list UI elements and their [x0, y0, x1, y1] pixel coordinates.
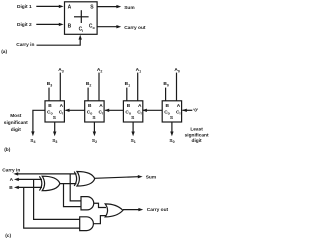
adder plus symbol	[74, 10, 89, 23]
svg-text:S: S	[131, 115, 135, 121]
svg-text:A3: A3	[58, 67, 63, 73]
svg-text:A1: A1	[136, 67, 141, 73]
wire B0 input	[165, 88, 167, 101]
full adder block FA1	[123, 101, 142, 122]
wire A tap to G2	[34, 179, 80, 219]
wire G1 output to OR	[94, 203, 106, 207]
svg-text:(a): (a)	[1, 49, 7, 55]
wire B3 input	[48, 88, 50, 101]
svg-text:Carry out: Carry out	[124, 25, 146, 31]
svg-text:A: A	[99, 103, 103, 109]
wire FA3 carry-out to S4	[31, 110, 45, 136]
xor gate X2 (sum)	[74, 172, 95, 187]
svg-text:Co: Co	[87, 110, 93, 116]
svg-text:A0: A0	[174, 67, 179, 73]
svg-text:A: A	[177, 103, 181, 109]
svg-text:digit: digit	[192, 138, 203, 144]
svg-text:Ci: Ci	[99, 110, 103, 116]
wire A1 input	[137, 73, 139, 101]
svg-text:Sum: Sum	[146, 175, 156, 181]
FA3 pin labels B A Co Ci S	[47, 103, 64, 121]
svg-text:B: B	[166, 103, 170, 109]
wire B1 input	[126, 88, 128, 101]
svg-text:B0: B0	[163, 81, 168, 87]
wire X1 output tap to G1	[64, 184, 82, 207]
svg-text:Co: Co	[125, 110, 131, 116]
svg-text:Least: Least	[190, 126, 203, 132]
svg-text:Ci: Ci	[79, 27, 84, 33]
FA0 pin labels B A Co Ci S	[164, 103, 181, 121]
svg-text:Co: Co	[89, 24, 96, 30]
svg-text:S: S	[170, 115, 174, 121]
wire carry FA2 to FA3	[65, 109, 85, 112]
wire carry-in tap to G1	[70, 174, 81, 201]
wire G2 output to OR	[93, 216, 106, 224]
wire S to Sum	[97, 5, 121, 8]
wire carry-in input (c)	[13, 172, 76, 175]
svg-text:A: A	[68, 5, 72, 11]
svg-text:Carry out: Carry out	[147, 207, 169, 213]
svg-text:A: A	[138, 103, 142, 109]
wire FA3 sum out S3	[53, 122, 56, 136]
svg-text:A: A	[10, 177, 14, 183]
svg-text:A: A	[60, 103, 64, 109]
wire Sum output (c)	[95, 175, 143, 178]
wire Digit 1 to A	[36, 5, 63, 8]
svg-text:Ci: Ci	[176, 110, 180, 116]
svg-text:significant: significant	[185, 132, 209, 138]
wire FA2 sum out S2	[93, 122, 96, 136]
full adder block U1 (a)	[65, 2, 98, 35]
svg-text:Ci: Ci	[59, 110, 63, 116]
svg-text:Digit 2: Digit 2	[17, 22, 32, 28]
svg-text:S: S	[90, 5, 94, 11]
svg-text:Digit 1: Digit 1	[17, 4, 32, 10]
svg-text:Co: Co	[164, 110, 170, 116]
and gate G2 (A and B)	[80, 217, 94, 231]
wire Carry out output (c)	[123, 208, 143, 211]
svg-text:Carry in: Carry in	[16, 42, 34, 48]
svg-text:‘0’: ‘0’	[193, 107, 198, 113]
wire carry-in 0 to FA0	[182, 109, 192, 112]
wire FA1 sum out S1	[131, 122, 134, 136]
svg-text:S1: S1	[131, 138, 136, 144]
wire carry FA1 to FA2	[104, 109, 123, 112]
svg-text:S4: S4	[30, 138, 35, 144]
svg-text:B1: B1	[125, 81, 130, 87]
wire B input (c)	[14, 186, 42, 189]
svg-text:A2: A2	[97, 67, 102, 73]
svg-text:S: S	[92, 115, 96, 121]
wire B2 input	[87, 88, 89, 101]
wire B tap to G2	[24, 187, 80, 228]
svg-text:Most: Most	[10, 113, 22, 119]
wire X1 output to X2	[60, 183, 77, 185]
full adder block FA0 (least significant)	[162, 101, 181, 122]
label Least significant digit	[185, 126, 209, 143]
wire A2 input	[98, 73, 100, 101]
full adder block FA2	[85, 101, 104, 122]
xor gate X1 (A xor B)	[39, 176, 60, 191]
svg-text:B3: B3	[47, 81, 52, 87]
svg-text:B: B	[48, 103, 52, 109]
or gate G3 (carry out)	[105, 204, 123, 217]
svg-text:B2: B2	[86, 81, 91, 87]
wire FA0 sum out S0	[170, 122, 173, 136]
svg-text:B: B	[127, 103, 131, 109]
svg-text:B: B	[68, 24, 72, 30]
wire Co to Carry out	[97, 25, 121, 28]
svg-text:S: S	[53, 115, 57, 121]
svg-text:S0: S0	[169, 138, 174, 144]
label Most significant digit	[4, 113, 28, 133]
svg-text:S3: S3	[52, 138, 57, 144]
svg-text:digit: digit	[11, 127, 22, 133]
svg-text:B: B	[9, 185, 13, 191]
FA2 pin labels B A Co Ci S	[87, 103, 104, 121]
svg-text:B: B	[88, 103, 92, 109]
wire carry FA0 to FA1	[142, 109, 162, 112]
svg-text:(b): (b)	[4, 147, 11, 153]
svg-text:significant: significant	[4, 120, 28, 126]
wire Digit 2 to B	[36, 23, 63, 26]
wire A3 input	[59, 73, 61, 101]
svg-text:S2: S2	[92, 138, 97, 144]
svg-text:(c): (c)	[5, 233, 11, 239]
full adder block FA3 (most significant)	[45, 101, 64, 122]
svg-text:Ci: Ci	[137, 110, 141, 116]
svg-text:Sum: Sum	[124, 5, 134, 11]
wire A input (c)	[14, 178, 42, 181]
and gate G1 (Cin and AxorB)	[81, 197, 94, 210]
FA1 pin labels B A Co Ci S	[125, 103, 142, 121]
wire A0 input	[176, 73, 178, 101]
wire Carry in to Ci	[37, 35, 82, 45]
svg-text:Co: Co	[47, 110, 53, 116]
